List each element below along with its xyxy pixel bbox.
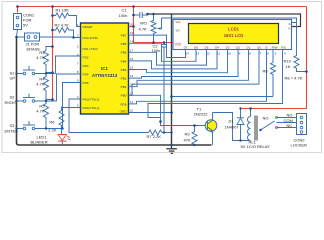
wire S1 left (17, 73, 24, 75)
svg-text:S2: S2 (10, 95, 16, 100)
svg-text:BLINKER: BLINKER (31, 140, 48, 145)
wire pin20 VCC (129, 26, 134, 28)
wire S1/R3 to pin6 (35, 56, 81, 74)
wire S3 left (17, 128, 24, 130)
switch S3 (5, 121, 36, 134)
capacitor C1 100n (119, 8, 148, 19)
node junction (240,140) (239, 139, 241, 141)
resistor R10 1K (284, 23, 307, 72)
wire J1 left (17, 36, 25, 38)
diode D1 1N4007 (225, 109, 245, 141)
svg-text:LCD1: LCD1 (228, 27, 240, 32)
ground symbol (166, 145, 177, 153)
resistor R1 10K (53, 8, 71, 19)
ground vertical mid (171, 14, 173, 145)
svg-text:PB6: PB6 (121, 42, 127, 46)
svg-text:ATTINY2313: ATTINY2313 (92, 73, 118, 78)
svg-text:PD1 (TXD): PD1 (TXD) (83, 47, 98, 51)
svg-text:PB7: PB7 (121, 34, 127, 38)
svg-text:2.2K: 2.2K (48, 128, 57, 133)
resistor R7 2.2K (147, 130, 172, 139)
wire D4 to PB4 (129, 50, 218, 69)
wire S3/R5 to pin9 (35, 83, 81, 129)
node junction (45.5,128) (45, 127, 47, 129)
wire D2 to PB2 (129, 50, 239, 79)
svg-text:PB0: PB0 (121, 94, 127, 98)
wire R6 to pin5 (62, 107, 81, 109)
relay armature (261, 121, 275, 130)
svg-text:RS: RS (281, 46, 285, 50)
svg-text:C1: C1 (122, 8, 128, 13)
resistor R6 2.2K (48, 107, 64, 135)
svg-text:47K: 47K (184, 138, 191, 143)
node junction (45.5,100.5) (45, 100, 47, 102)
node junction (171,96) (170, 95, 173, 98)
svg-text:K: K (289, 27, 291, 31)
node junction (306,71) (305, 70, 308, 73)
node junction (133,26) (132, 25, 135, 28)
svg-text:4.7K: 4.7K (36, 55, 45, 60)
svg-text:16X1 LCD: 16X1 LCD (224, 33, 244, 38)
node junction (153,42) (152, 41, 155, 44)
svg-text:4.7K: 4.7K (36, 109, 45, 114)
svg-text:IC1: IC1 (101, 66, 108, 71)
LED1 (31, 135, 71, 146)
wire S2/R4 to pin8 (35, 74, 81, 101)
svg-text:D3: D3 (226, 46, 230, 50)
svg-text:10: 10 (130, 109, 134, 113)
node junction (171,112) (170, 111, 173, 114)
wire E to PD6 (129, 50, 267, 104)
node junction (52,46) (51, 45, 54, 48)
svg-text:PD3: PD3 (83, 64, 89, 68)
ground wire gray top (148, 14, 301, 27)
svg-text:5V: 5V (23, 23, 28, 28)
LCD module LCD1 (173, 20, 292, 56)
svg-text:R8 = 4.7K: R8 = 4.7K (285, 76, 303, 81)
capacitor C2 100n (152, 43, 168, 133)
svg-text:15: 15 (130, 66, 134, 70)
relay contacts wires (277, 118, 297, 128)
node junction (52,29.5) (51, 29, 54, 32)
svg-text:R2 4.7K: R2 4.7K (55, 23, 70, 28)
wire CON1 to rail (17, 7, 19, 13)
svg-text:PB2: PB2 (121, 77, 127, 81)
connector CON1 (14, 13, 35, 37)
resistor R8 (263, 63, 276, 97)
node junction (250,108) (249, 107, 252, 110)
node junction (52,99) (51, 98, 54, 101)
svg-text:D4: D4 (215, 46, 219, 50)
svg-text:Vss: Vss (176, 20, 182, 24)
svg-text:GND: GND (120, 110, 128, 114)
wire red vertical left (52, 7, 54, 100)
svg-text:100n: 100n (119, 13, 128, 18)
svg-text:D6: D6 (194, 46, 198, 50)
op IC1 ATTINY2313 (77, 23, 134, 115)
node junction (52,72) (51, 71, 54, 74)
svg-text:1N4007: 1N4007 (225, 125, 240, 130)
connector CON2 (291, 114, 308, 148)
svg-text:18: 18 (130, 40, 134, 44)
node junction (16,100.5) (15, 100, 17, 102)
wire D6 to PB6 (129, 44, 197, 62)
svg-text:PD5: PD5 (83, 81, 89, 85)
svg-text:19: 19 (130, 31, 134, 35)
svg-text:D1: D1 (229, 119, 235, 124)
svg-text:5V 1C/O RELAY: 5V 1C/O RELAY (241, 144, 271, 149)
node junction (73,37) (72, 36, 74, 38)
svg-text:VO: VO (176, 29, 181, 33)
resistor R2 4.7K (53, 23, 71, 33)
svg-text:LOCKER: LOCKER (291, 143, 308, 148)
wire RS long (148, 50, 283, 118)
wire D7 to PB7 (129, 35, 186, 57)
svg-text:R7 2.2K: R7 2.2K (147, 134, 162, 139)
svg-text:NO: NO (287, 113, 293, 118)
svg-text:PA1(XTAL2): PA1(XTAL2) (83, 98, 100, 102)
resistor R4 4.7K (36, 73, 52, 102)
node junction (240,108) (239, 107, 241, 109)
svg-text:NO: NO (263, 116, 269, 121)
wire J1 to pin2 (40, 36, 81, 39)
svg-text:VDD: VDD (175, 43, 182, 47)
svg-text:R/W: R/W (272, 46, 278, 50)
wire R1 to pin1 (71, 16, 81, 27)
wire S2 left (17, 100, 24, 102)
svg-text:11: 11 (130, 100, 133, 104)
wire D0 to PB0 (129, 50, 260, 96)
transistor T1 2N2222 (194, 107, 217, 146)
jumper J1 (25, 33, 41, 51)
svg-text:ERASE: ERASE (27, 46, 41, 51)
svg-text:D2: D2 (236, 46, 240, 50)
svg-text:S3: S3 (10, 123, 16, 128)
preset VR1 4.7K (139, 14, 162, 43)
node junction (16,128) (15, 127, 17, 129)
svg-text:NC: NC (287, 123, 293, 128)
svg-text:A: A (289, 22, 291, 26)
resistor R3 4.7K (36, 47, 52, 74)
wire RW stub to R8 (272, 50, 274, 63)
wire pin4 to R7 (69, 99, 149, 133)
node junction (52,6) (51, 5, 54, 8)
wire VEE line (162, 18, 297, 23)
node junction (62,128) (61, 127, 63, 129)
wire D1 to PB1 (129, 50, 249, 87)
node junction (52,15) (51, 14, 54, 17)
svg-text:R9: R9 (185, 132, 191, 137)
node junction (133,6) (132, 5, 135, 8)
svg-text:PD2: PD2 (83, 56, 89, 60)
svg-text:PB1: PB1 (121, 85, 127, 89)
svg-text:VR1: VR1 (140, 21, 149, 26)
wire red vertical mid (134, 7, 174, 43)
wire D3 to PB3 (129, 50, 228, 73)
svg-text:17: 17 (130, 48, 134, 52)
svg-text:E: E (265, 46, 267, 50)
svg-text:D7: D7 (184, 46, 188, 50)
wire collector to relay (213, 113, 251, 141)
svg-text:PD6: PD6 (120, 102, 126, 106)
node junction (160,121) (159, 120, 162, 123)
wire T1 base from PB0 (129, 95, 206, 125)
svg-text:RESET: RESET (83, 25, 93, 29)
wire +5V top rail (18, 6, 307, 8)
svg-text:4.7K: 4.7K (36, 82, 45, 87)
svg-text:D5: D5 (205, 46, 209, 50)
switch S1 (10, 66, 36, 81)
resistor R9 47K (184, 126, 198, 146)
svg-text:UP: UP (10, 76, 16, 81)
svg-text:16: 16 (130, 57, 134, 61)
svg-text:R1 10K: R1 10K (56, 8, 70, 13)
svg-text:PB4: PB4 (121, 59, 127, 63)
wire GND pin to gnd (129, 112, 172, 114)
node junction (171,144.5) (170, 144, 173, 147)
border frame (2, 2, 322, 153)
svg-text:2N2222: 2N2222 (194, 112, 209, 117)
wire R8 to gnd line (172, 96, 274, 98)
svg-text:PB5: PB5 (121, 51, 127, 55)
wire D5 to PB5 (129, 50, 207, 66)
svg-text:PD4: PD4 (83, 73, 89, 77)
wire red vertical right (241, 7, 307, 109)
node junction (16,36.5) (15, 36, 18, 39)
svg-text:PA0(XTAL1): PA0(XTAL1) (83, 106, 100, 110)
svg-text:D1: D1 (247, 46, 251, 50)
switch S2 (5, 94, 36, 106)
svg-text:R10: R10 (284, 59, 292, 64)
node junction (163.5,42) (163, 41, 166, 44)
node junction (16,73) (15, 72, 17, 74)
node junction (133,14.5) (132, 14, 135, 17)
node junction (147,13.5) (146, 13, 149, 16)
svg-text:R8: R8 (263, 69, 269, 74)
svg-text:PD0 (RXD): PD0 (RXD) (83, 36, 98, 40)
svg-text:1K: 1K (286, 64, 291, 69)
svg-text:D0: D0 (257, 46, 261, 50)
resistor R5 4.7K (36, 100, 52, 129)
wire R2 to pin2 (71, 30, 74, 38)
svg-text:PB3: PB3 (121, 68, 127, 72)
svg-text:R6: R6 (49, 120, 55, 125)
node junction (194,144.5) (193, 144, 195, 146)
ground bus black left (17, 37, 212, 146)
svg-text:4.7K: 4.7K (139, 27, 148, 32)
node junction (153,13.5) (152, 13, 155, 16)
svg-text:14: 14 (130, 74, 134, 78)
relay RL1 coil (241, 109, 271, 150)
node junction (17,6) (16, 5, 19, 8)
node junction (45.5,73) (45, 72, 47, 74)
